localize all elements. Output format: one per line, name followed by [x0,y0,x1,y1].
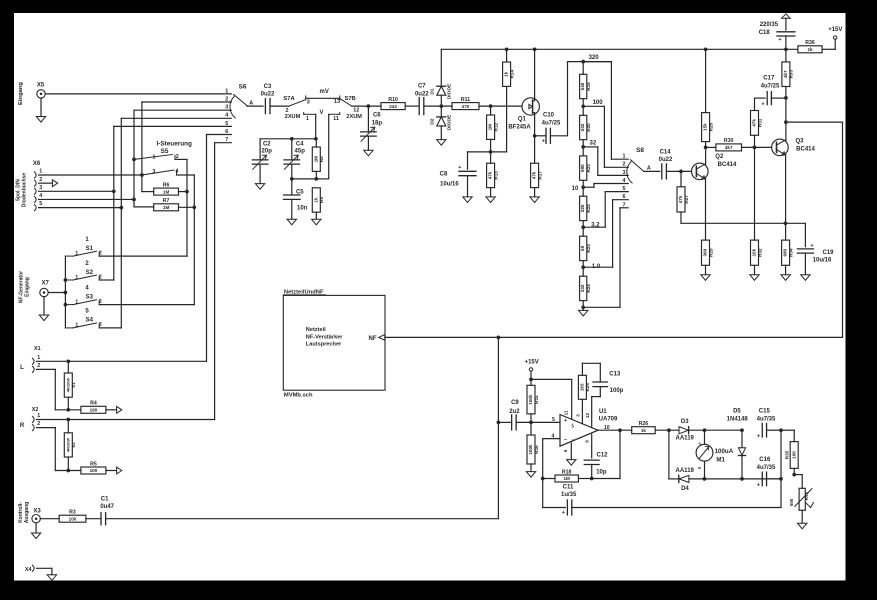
wire tap1.0 to S8 pin6 [583,200,628,268]
connector X7 (NF-Generator Eingang) [18,271,49,315]
svg-text:1k5: 1k5 [579,383,584,391]
svg-text:+: + [757,434,760,440]
wire pin6 ground [570,443,572,460]
svg-text:220: 220 [580,204,585,212]
svg-text:1: 1 [306,116,309,122]
wire C14 to Q2 base [666,170,691,174]
svg-text:7: 7 [623,202,626,208]
svg-text:11: 11 [564,410,569,415]
svg-text:AA119: AA119 [676,436,695,442]
resistor R7 [154,198,195,211]
svg-text:D2: D2 [429,118,435,125]
svg-text:20p: 20p [262,149,273,155]
ground [801,275,810,281]
connector X1 [20,346,40,373]
svg-text:1k: 1k [807,47,813,52]
svg-text:13: 13 [334,99,340,105]
wire S1 to S5/R6 riser [99,255,187,257]
svg-text:100uA: 100uA [715,448,734,455]
svg-text:4u7/25: 4u7/25 [761,84,780,90]
svg-text:320: 320 [589,55,600,61]
svg-text:X7: X7 [42,280,50,286]
wire S6 line2 [142,102,231,175]
svg-text:100: 100 [69,516,77,521]
svg-text:4: 4 [552,433,555,439]
switch S5 contact 3-4 [140,169,194,177]
svg-text:I-Steuerung: I-Steuerung [156,141,192,148]
resistor R18 [543,469,592,482]
svg-text:X6: X6 [33,161,41,167]
svg-text:D5: D5 [733,409,741,415]
wire X6 pin4 [39,198,136,202]
svg-text:R11: R11 [461,97,470,103]
capacitor C12 [584,434,608,478]
svg-text:R9: R9 [319,197,324,203]
wire emitter feedback line [681,221,805,246]
svg-text:M1: M1 [716,456,725,463]
resistor R2 [64,420,76,471]
svg-text:47k: 47k [752,119,757,127]
resistor R14 [503,49,515,152]
svg-text:Diodenbuchse: Diodenbuchse [22,173,28,208]
resistor R11 [452,97,479,110]
svg-text:11: 11 [333,116,339,122]
resistor R28 [702,49,714,147]
svg-text:X4: X4 [25,567,32,573]
svg-text:R31: R31 [757,118,762,127]
svg-text:Q2: Q2 [715,154,724,160]
wire Q3 collector [784,96,788,141]
svg-text:C2: C2 [263,141,271,147]
svg-text:+15V: +15V [525,360,539,366]
wire +15V rail [441,47,798,51]
svg-text:4: 4 [623,178,626,184]
svg-text:4R/20W: 4R/20W [65,378,70,393]
svg-text:AA119: AA119 [676,468,695,474]
svg-text:300: 300 [703,248,708,256]
wire X1 pin1 to riser6 [37,359,207,363]
svg-text:S6: S6 [239,84,247,91]
svg-text:R36: R36 [805,40,815,46]
wire X2 pin2 [37,428,81,473]
svg-text:R4: R4 [90,401,97,407]
svg-text:12: 12 [585,413,590,419]
ground [437,140,446,146]
svg-text:MVMb.sch: MVMb.sch [284,393,313,399]
wire C7 to R11 junction [425,104,452,108]
svg-text:1: 1 [39,169,42,175]
wire M1 bottom [704,461,706,479]
capacitor C8 [440,152,476,197]
resistor R12 [487,106,499,152]
meter M1 100uA [696,442,734,470]
connector X3 (Kontroll-Ausgang) [18,502,42,533]
svg-text:10n: 10n [297,206,308,212]
svg-text:S8: S8 [636,147,644,154]
wire S6 line4 [121,118,231,328]
switch S2 [65,261,101,281]
svg-text:1: 1 [37,355,40,361]
svg-text:1M: 1M [163,205,170,210]
svg-text:R34: R34 [788,248,793,257]
svg-text:9: 9 [585,440,590,443]
svg-text:2u2: 2u2 [509,409,520,415]
svg-text:X2: X2 [32,407,39,413]
svg-text:L: L [20,365,24,371]
svg-text:47k: 47k [678,195,683,203]
svg-text:R8: R8 [319,156,324,162]
svg-text:C18: C18 [759,30,771,36]
wire base line Q3 [704,146,772,150]
wire S7B to R10 [352,104,381,108]
resistor R8 [312,139,324,179]
svg-text:1M: 1M [313,156,318,163]
svg-text:Netzteil: Netzteil [306,327,326,333]
svg-text:+: + [564,418,567,424]
capacitor C13 [582,363,623,427]
ground [750,275,759,281]
svg-text:R24: R24 [586,284,591,293]
svg-text:R19: R19 [586,82,591,91]
svg-text:10p: 10p [596,469,607,475]
wire S3 to S5/R7 riser [99,304,194,306]
svg-text:C8: C8 [440,171,448,177]
ground [701,275,710,281]
resistor R34 [782,240,794,275]
ground [287,219,296,225]
wire S6 line6 [207,135,232,362]
svg-text:680: 680 [580,164,585,172]
resistor R19 [580,62,591,107]
svg-text:2: 2 [39,177,42,183]
svg-text:R26: R26 [639,421,649,427]
resistor R10 [381,97,405,110]
svg-text:S7B: S7B [344,96,355,102]
svg-text:C16: C16 [759,457,771,463]
wire feedback to R18 [590,430,620,480]
wire C3 to S7A [270,105,289,107]
wire S6 wiper to C3 [247,105,263,107]
svg-text:R12: R12 [493,123,498,132]
svg-text:3: 3 [307,99,310,105]
svg-text:RV1: RV1 [804,491,809,500]
resistor R6 [142,175,187,195]
wire X6 pin1 [39,174,142,176]
svg-text:V+: V+ [571,423,575,428]
svg-text:3: 3 [39,185,42,191]
node 32 [581,140,597,148]
wire X5 to S6 pin1 [45,93,231,95]
svg-text:47k: 47k [532,171,537,179]
wire X1 pin2 [37,369,81,411]
ground [36,117,45,123]
resistor R35 [784,430,798,476]
resistor R1 [64,361,76,410]
wire -input [541,433,560,480]
svg-text:Ausgang: Ausgang [24,502,30,523]
svg-text:1M: 1M [163,189,170,194]
diode D2 [429,106,452,140]
svg-text:S3: S3 [86,294,94,300]
svg-text:R7: R7 [163,198,170,204]
connector X4 [25,565,52,575]
svg-text:DIODE: DIODE [447,114,453,130]
svg-text:R1: R1 [71,382,76,388]
svg-text:C9: C9 [511,400,519,406]
resistor R17 [531,163,543,197]
capacitor C14 [659,150,673,179]
svg-text:2: 2 [623,162,626,168]
svg-text:2: 2 [37,363,40,369]
trimmer capacitor C4 [284,139,305,179]
switch S4 [65,309,101,329]
wire S4 to line4 riser [99,327,121,329]
svg-text:2XUM: 2XUM [285,114,301,120]
resistor R24 [580,267,591,307]
svg-text:R30: R30 [724,138,734,144]
wire X6 pin2 arrow [39,180,58,187]
svg-text:6: 6 [563,449,568,452]
resistor R32 [751,147,763,274]
svg-text:4u7/35: 4u7/35 [757,465,776,471]
svg-text:R25: R25 [585,383,590,392]
svg-text:R33: R33 [789,70,794,79]
svg-text:NF: NF [369,336,377,342]
svg-text:C4: C4 [296,141,304,147]
svg-text:C3: C3 [264,84,272,90]
wire node V-divider top [260,137,318,160]
svg-text:D3: D3 [681,419,689,425]
svg-text:1k: 1k [641,428,647,433]
svg-text:45p: 45p [295,149,306,155]
svg-text:1: 1 [75,251,78,257]
svg-text:100: 100 [90,468,98,473]
svg-text:+: + [757,483,760,489]
svg-text:R13: R13 [493,171,498,180]
svg-text:+: + [542,139,545,145]
svg-text:1M: 1M [564,476,571,481]
resistor R13 [487,152,499,197]
svg-text:R29: R29 [708,248,713,257]
svg-text:1: 1 [225,88,228,94]
svg-text:X3: X3 [33,508,41,514]
trimmer capacitor C2 [252,141,272,183]
svg-text:3: 3 [152,169,155,175]
sheet symbol NetzteilUndNF [283,290,385,399]
svg-text:10u/16: 10u/16 [813,258,832,264]
svg-text:S4: S4 [86,318,94,324]
ground [567,460,576,466]
svg-text:m: m [698,466,701,470]
resistor R9 [312,188,324,219]
ground [364,150,373,156]
svg-text:242: 242 [580,123,585,131]
svg-text:100p: 100p [610,388,624,394]
svg-text:+: + [458,165,461,171]
wire V+ branch [531,379,572,419]
svg-text:R21: R21 [586,163,591,172]
capacitor C9 [498,400,531,430]
svg-text:C1: C1 [101,496,109,502]
ground [798,523,807,529]
svg-text:5: 5 [39,201,42,207]
ground [486,197,495,203]
svg-text:100: 100 [90,408,98,413]
svg-text:R: R [20,423,25,429]
svg-text:32: 32 [590,140,597,146]
svg-text:V: V [319,110,323,116]
svg-text:1: 1 [75,299,78,305]
wire tap10 to S8 pin4 [583,184,628,188]
resistor R26 [632,421,656,434]
resistor R29 [702,240,714,275]
switch S5 contact 1-2 [132,154,187,161]
svg-text:BC414: BC414 [796,147,815,153]
transistor Q1 BF245A [508,98,539,131]
transistor Q3 BC414 [772,138,816,155]
capacitor C17 [755,75,786,107]
wire S7A pin1 riser [315,114,317,139]
svg-text:680: 680 [783,248,788,256]
resistor R3 [59,510,86,523]
svg-text:C5: C5 [296,189,304,195]
svg-text:NF-Verstärker: NF-Verstärker [306,334,344,340]
wire S2 to line5 riser [99,279,114,281]
svg-text:D4: D4 [681,486,689,492]
svg-text:S7A: S7A [283,96,295,102]
svg-text:332: 332 [580,284,585,292]
ground [39,315,48,321]
wire switch pole bus [64,256,68,328]
wire tap100 to S8 pin2 [583,106,628,167]
svg-text:C17: C17 [763,75,775,81]
svg-text:242: 242 [389,104,397,109]
svg-text:4u7/25: 4u7/25 [542,121,561,127]
wire X6 pin3 [39,189,116,193]
svg-text:220/35: 220/35 [760,22,779,28]
svg-text:6: 6 [623,194,626,200]
svg-text:R14: R14 [509,70,514,79]
ground [255,184,264,190]
wire S5-1 riser to R6/S1 [185,159,189,256]
capacitor C5 [284,179,308,219]
resistor R33 [782,49,794,98]
svg-text:100k: 100k [528,394,533,405]
resistor R31 [751,98,763,147]
resistor R15 [527,385,539,422]
+15V supply op-amp [525,360,539,386]
svg-text:640: 640 [580,82,585,90]
resistor R5 [81,461,122,474]
wire R3 to C1 [86,518,101,520]
svg-text:R5: R5 [90,461,97,467]
node 100 [581,100,603,108]
wire Q2 emitter [705,178,707,240]
resistor R30 [716,138,742,151]
svg-text:+15V: +15V [828,27,842,33]
svg-text:S2: S2 [86,270,94,276]
svg-text:mV: mV [320,89,329,95]
svg-text:R3: R3 [69,510,76,516]
wire C15/C16 right node [779,428,794,507]
op-amp U1 UA709 [560,409,618,452]
svg-text:2: 2 [176,154,179,160]
wire source-bias node [468,150,507,154]
wire R10 to C7 [405,105,418,107]
svg-text:2: 2 [37,421,40,427]
svg-text:R6: R6 [163,182,170,188]
resistor R21 [580,147,591,187]
node 1.0 [581,264,600,270]
svg-text:10k: 10k [752,248,757,256]
svg-text:R27: R27 [684,195,689,204]
node 10 [572,185,585,191]
svg-text:4: 4 [39,193,42,199]
svg-text:R28: R28 [708,122,713,131]
wire M1 top [704,430,706,444]
svg-text:C15: C15 [759,409,771,415]
switch S7A [283,96,315,122]
svg-text:100: 100 [593,100,604,106]
svg-text:470: 470 [462,104,470,109]
svg-text:−: − [564,438,567,444]
svg-text:5: 5 [623,186,626,192]
node 3.2 [581,223,600,229]
ground [781,275,790,281]
trimmer capacitor C6 [361,106,383,150]
+15V supply [822,27,842,49]
label I-Steuerung [156,141,192,156]
svg-text:C12: C12 [596,452,608,458]
svg-text:500: 500 [789,498,794,506]
wire Q3 emitter [785,154,787,240]
svg-text:4u7/35: 4u7/35 [757,417,776,423]
svg-text:1M: 1M [488,124,493,131]
capacitor C16 [757,457,781,488]
svg-text:100: 100 [791,451,796,459]
switch S7B [329,96,363,122]
svg-text:Eingang: Eingang [24,277,30,297]
svg-text:C13: C13 [609,372,621,378]
svg-text:1: 1 [75,323,78,329]
svg-text:BC414: BC414 [718,162,737,168]
wire X6 pin5 [39,206,124,210]
ground [312,219,321,225]
wire R26 to diodes [655,428,679,432]
svg-text:+: + [562,510,565,516]
wire S6 line7 [215,143,232,420]
connector X5 (Eingang BNC) [18,82,45,117]
svg-text:X1: X1 [34,346,41,352]
svg-text:1k: 1k [313,197,318,203]
capacitor C1 [100,496,114,524]
svg-text:R10: R10 [388,97,398,103]
svg-text:R15: R15 [534,395,539,404]
wire tap3.2 to S8 pin5 [583,192,628,228]
svg-text:R18: R18 [562,469,572,475]
svg-text:4R/20W: 4R/20W [65,437,70,452]
svg-text:3: 3 [623,170,626,176]
svg-text:+: + [810,243,813,249]
svg-text:18p: 18p [372,121,383,127]
svg-text:R17: R17 [537,171,542,180]
svg-text:R2: R2 [71,442,76,448]
wire Q1 drain [534,49,536,100]
wire R11 to Q1 gate [479,104,522,108]
svg-text:X5: X5 [37,83,45,89]
svg-text:1N4148: 1N4148 [727,417,749,423]
wire S8 wiper to C14 [644,170,660,172]
